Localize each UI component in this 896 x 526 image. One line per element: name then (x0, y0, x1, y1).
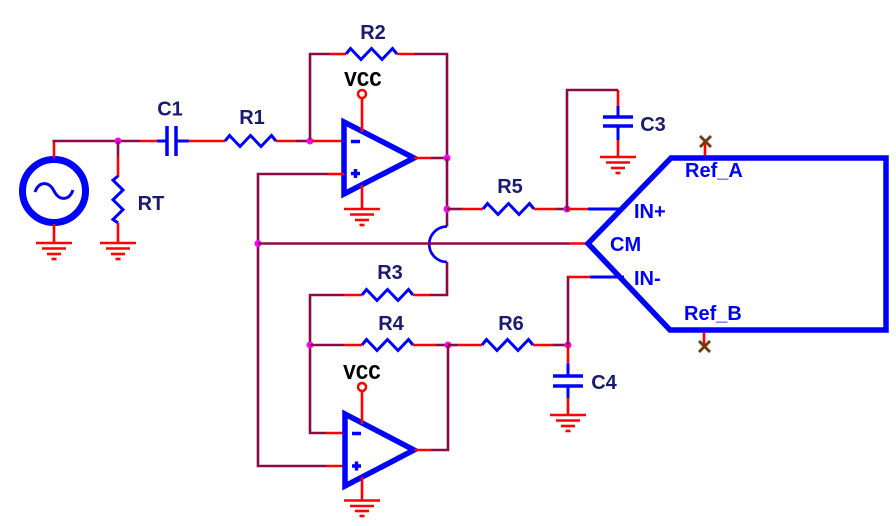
wire source bottom stub (53, 224, 56, 243)
svg-text:R5: R5 (497, 176, 523, 198)
wire R6 left red (458, 344, 482, 347)
source V1 (23, 160, 86, 223)
wire R2 left red (330, 53, 346, 56)
wire IN- red stub (568, 276, 592, 279)
wire R6 right red (533, 344, 553, 347)
capacitor C1 (157, 126, 189, 156)
wire U1 output maroon (431, 157, 447, 160)
wire IN+ red stub (567, 208, 590, 211)
wire main rail maroon (53, 140, 141, 143)
pin IN+ blue stub (588, 208, 621, 211)
wire C4 top red (567, 345, 570, 365)
node C4/IN- junction (565, 342, 572, 349)
power VCC1 terminal (358, 90, 366, 98)
svg-text:C4: C4 (591, 372, 617, 394)
wire C1 to R1 red (189, 140, 225, 143)
wire R3 left maroon (310, 295, 344, 345)
node U1 output junction (444, 155, 451, 162)
wire rail2 down maroon (310, 345, 326, 433)
wire main rail red to C1 (140, 140, 158, 143)
wire U1 ground red (361, 185, 364, 209)
wire R2 right vertical maroon (414, 54, 447, 158)
wire source top stub (53, 141, 56, 158)
svg-text:IN+: IN+ (634, 201, 666, 223)
wire C4 bottom red (567, 398, 570, 415)
svg-text:R1: R1 (239, 107, 265, 129)
pin Ref_A X mark (700, 136, 711, 147)
resistor R6 (482, 340, 533, 351)
wire R5 right red (534, 208, 556, 211)
wire R1 to node red (276, 140, 296, 143)
wire R4 right maroon (436, 344, 448, 347)
wire R1 node maroon (296, 140, 312, 143)
svg-text:CM: CM (610, 234, 641, 256)
wire R3 right red (413, 294, 430, 297)
svg-text:Ref_A: Ref_A (685, 160, 743, 182)
wire U1 output red (414, 157, 431, 160)
wire U1 plus red stub (328, 173, 344, 176)
capacitor C4 (553, 364, 583, 398)
svg-text:RT: RT (138, 193, 165, 215)
pin IN- blue stub (590, 276, 624, 279)
wire left rail plus input maroon (258, 174, 328, 466)
wire R3 left red (344, 294, 362, 297)
resistor R1 (225, 136, 276, 147)
wire R4 right red (413, 344, 436, 347)
wire U2 plus red stub (326, 465, 345, 468)
device U3 (588, 158, 886, 330)
wire CM maroon (258, 242, 569, 245)
node R4/R6 junction (445, 342, 452, 349)
wire RT top maroon (117, 141, 120, 156)
pin Ref_A red stub (704, 143, 707, 156)
wire R2 right red (397, 53, 414, 56)
wire C3 bottom red (617, 140, 620, 157)
node R5 junction (444, 206, 451, 213)
resistor R2 (346, 49, 397, 60)
resistor R3 (362, 290, 413, 301)
ground RT (100, 243, 136, 259)
wire R5 left maroon stub (447, 208, 462, 211)
wire C3 top red (617, 90, 620, 107)
pin Ref_B red stub (703, 332, 706, 346)
wire R2 left vertical maroon (310, 54, 330, 140)
wire U2 minus red stub (326, 432, 345, 435)
ground U1 (344, 209, 380, 225)
wire R4 left red (344, 344, 362, 347)
wire node to minus input red (312, 140, 344, 143)
svg-text:VCC: VCC (344, 70, 382, 93)
wire R6 right maroon (553, 344, 568, 347)
capacitor C3 (603, 106, 633, 140)
wire RT top red (117, 156, 120, 177)
wire CM red stub (569, 242, 588, 245)
ground C3 (600, 157, 636, 173)
op-amp U1 (344, 122, 414, 194)
svg-text:C1: C1 (157, 99, 183, 121)
wire C3 branch maroon (567, 90, 618, 211)
wire RT bottom red (117, 223, 120, 243)
wire VCC1 to op-amp red (361, 98, 364, 132)
ground source (36, 243, 72, 259)
svg-text:VCC: VCC (343, 363, 381, 386)
svg-text:R2: R2 (360, 22, 386, 44)
svg-text:R3: R3 (377, 262, 403, 284)
node RT junction (115, 138, 122, 145)
wire hop down maroon (430, 262, 447, 295)
ground C4 (550, 415, 586, 431)
node CM junction (255, 240, 262, 247)
pin Ref_B X mark (699, 341, 710, 352)
wire R5 right maroon (556, 208, 567, 211)
wire output down maroon (446, 158, 449, 227)
wire IN- vertical maroon (568, 277, 570, 345)
ground U2 (344, 501, 380, 517)
wire U2 output maroon up (431, 345, 448, 450)
wire R4 left maroon (310, 344, 344, 347)
svg-text:R6: R6 (498, 313, 524, 335)
node R4 left junction (307, 342, 314, 349)
svg-text:IN-: IN- (634, 268, 661, 290)
resistor R5 (483, 204, 534, 215)
wire R6 left maroon stub (448, 344, 458, 347)
svg-text:R4: R4 (378, 313, 404, 335)
svg-text:C3: C3 (640, 114, 666, 136)
wire U2 output red (414, 449, 431, 452)
wire R5 left red (462, 208, 483, 211)
svg-text:Ref_B: Ref_B (684, 303, 742, 325)
node R1/R2/minus junction (307, 138, 314, 145)
op-amp U2 (345, 414, 414, 486)
power VCC2 terminal (358, 383, 366, 391)
resistor R4 (362, 340, 413, 351)
wire hop over CM (429, 227, 447, 263)
resistor RT (113, 176, 123, 223)
node IN+ junction (564, 206, 571, 213)
wire VCC2 to op-amp red (361, 391, 364, 424)
wire U2 ground red (361, 477, 364, 500)
